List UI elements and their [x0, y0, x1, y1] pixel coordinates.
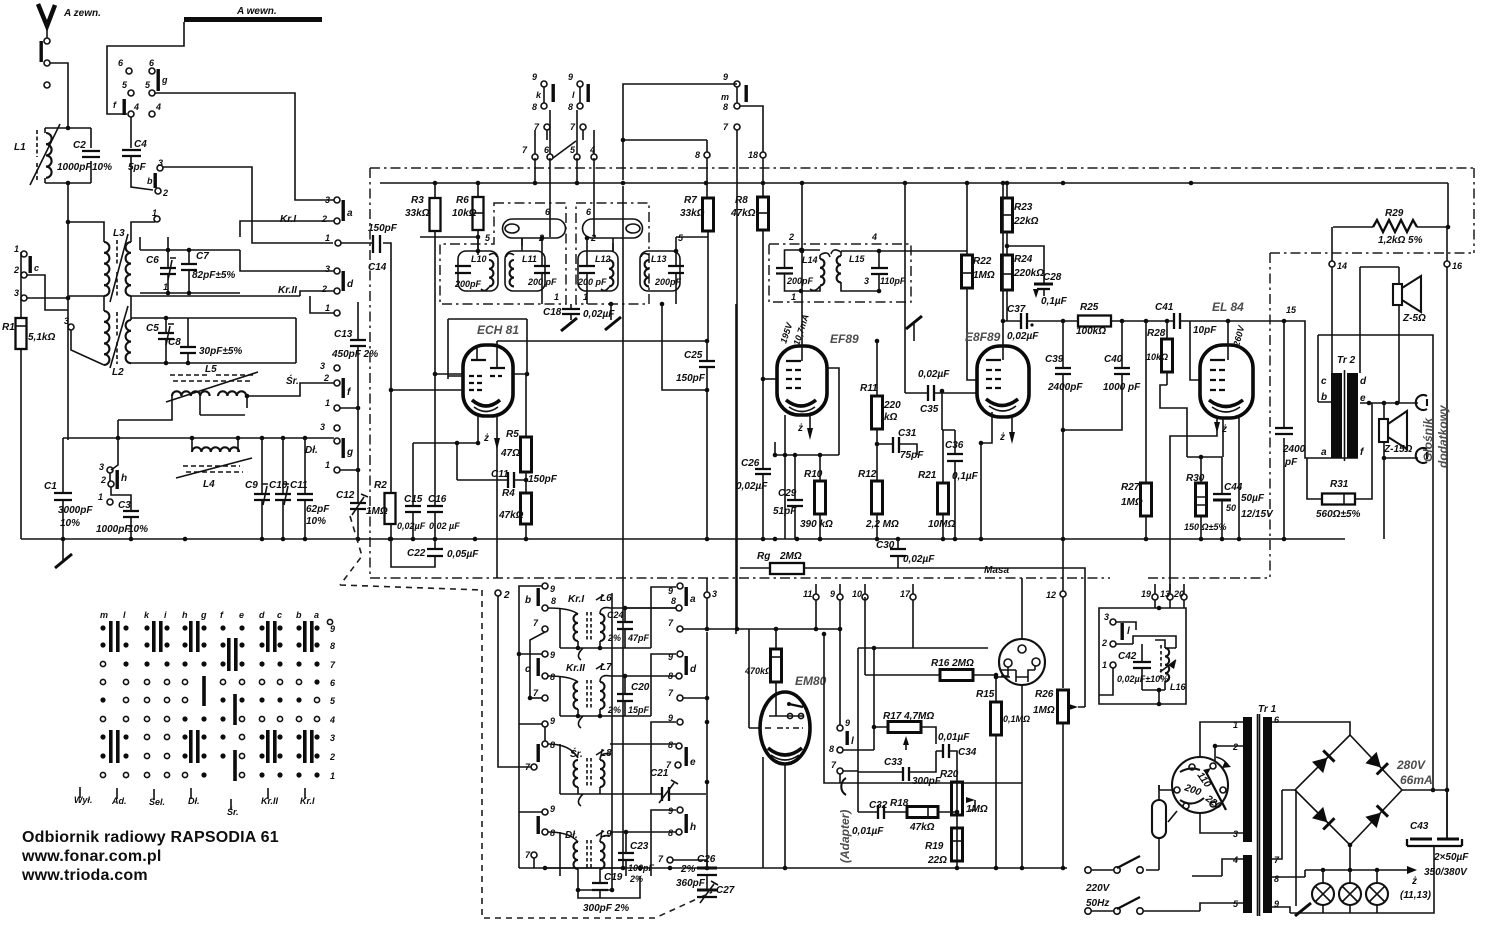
- wire: ECH81 cathode: [413, 416, 480, 480]
- node: pin row 7 6 5 4: [522, 110, 597, 160]
- svg-text:a: a: [347, 208, 353, 219]
- wire: EM80 top feed: [707, 130, 842, 728]
- svg-text:200 pF: 200 pF: [577, 277, 607, 287]
- svg-text:C2: C2: [73, 140, 86, 151]
- wire: selector to switch: [1146, 785, 1177, 870]
- svg-text:R4: R4: [502, 488, 515, 499]
- svg-text:kΩ: kΩ: [884, 412, 898, 423]
- capacitor C18 0.02uF: [543, 304, 615, 320]
- svg-text:200pF: 200pF: [654, 277, 682, 287]
- svg-text:C16: C16: [428, 494, 447, 505]
- svg-text:2%: 2%: [607, 633, 621, 643]
- svg-text:L13: L13: [651, 254, 667, 264]
- svg-text:150 Ω±5%: 150 Ω±5%: [1184, 522, 1227, 532]
- svg-text:g: g: [161, 75, 168, 85]
- capacitor C in can 200pF: [776, 250, 814, 291]
- svg-text:2: 2: [321, 214, 327, 224]
- svg-text:c: c: [1321, 376, 1327, 387]
- ground: C18 ground: [561, 318, 577, 331]
- svg-text:R28: R28: [1147, 328, 1166, 339]
- switch: contact group a2: [625, 583, 696, 611]
- node: A wewn. internal antenna: [184, 6, 322, 20]
- svg-text:(Adapter): (Adapter): [838, 810, 852, 863]
- node: junctions on B+ rail: [433, 181, 1194, 186]
- svg-text:d: d: [1360, 376, 1367, 387]
- wire: DIN socket drop: [994, 578, 1022, 868]
- node: www.fonar.com.pl: [21, 848, 162, 865]
- capacitor C30 0.02uF: [876, 539, 935, 568]
- svg-text:220: 220: [883, 400, 901, 411]
- resistor R18 47k: [890, 782, 959, 868]
- wire: audio section dash-dot left edge: [1269, 253, 1271, 578]
- svg-text:4: 4: [1232, 855, 1238, 865]
- wire: L5 connections: [118, 383, 334, 420]
- svg-text:Kr.II: Kr.II: [261, 796, 279, 806]
- svg-text:0,02µF: 0,02µF: [736, 481, 768, 492]
- svg-text:8: 8: [551, 596, 556, 606]
- svg-text:l: l: [1127, 626, 1130, 637]
- resistor R11 220k: [860, 339, 901, 481]
- svg-text:9: 9: [550, 804, 555, 814]
- svg-text:Masa: Masa: [984, 565, 1009, 576]
- svg-text:e: e: [239, 610, 244, 620]
- svg-text:1: 1: [791, 292, 796, 302]
- transformer Tr1: [1243, 704, 1277, 916]
- wire: heater lamp bus: [1272, 866, 1432, 901]
- svg-text:A wewn.: A wewn.: [236, 6, 277, 17]
- svg-text:12/15V: 12/15V: [1241, 509, 1274, 520]
- svg-text:C37: C37: [1007, 304, 1026, 315]
- switch: pin stack m above EF89: [721, 72, 748, 132]
- wire: L3 bottom to L2: [68, 296, 131, 320]
- svg-text:22kΩ: 22kΩ: [1013, 216, 1039, 227]
- svg-text:Śr.: Śr.: [570, 747, 583, 760]
- capacitor C44 50uF: [1213, 457, 1274, 541]
- transformer L2: [104, 306, 131, 378]
- node: matrix row numbers: [329, 624, 336, 781]
- svg-text:51pF: 51pF: [773, 506, 797, 517]
- svg-text:C20: C20: [631, 682, 650, 693]
- svg-text:9: 9: [830, 589, 835, 599]
- speaker Z-15ohm: [1379, 403, 1418, 460]
- svg-text:C9: C9: [245, 480, 258, 491]
- resistor R23 22k: [1002, 183, 1039, 255]
- svg-text:8: 8: [668, 671, 673, 681]
- node: L1 bottom junction: [66, 126, 71, 225]
- resistor R6 10k: [420, 183, 491, 255]
- svg-text:Rg: Rg: [757, 551, 770, 562]
- switch: contact group f (4,5,6): [113, 58, 139, 117]
- svg-text:16: 16: [1452, 261, 1463, 271]
- svg-text:0,02µF: 0,02µF: [918, 369, 950, 380]
- resistor R2 1M: [366, 388, 396, 542]
- svg-text:11: 11: [803, 589, 812, 599]
- capacitor C13 450pF: [331, 302, 378, 360]
- wire: tuning bus y438: [63, 420, 334, 452]
- svg-text:1: 1: [325, 398, 330, 408]
- capacitor C22 0.05uF: [391, 539, 479, 567]
- wire: chassis dash-dot left edge: [369, 168, 371, 578]
- switch: pin stack k above ECH81: [532, 72, 555, 140]
- wire: L1 down the left side: [67, 183, 69, 440]
- svg-text:L9: L9: [600, 829, 612, 840]
- wire: Kr.II wiring: [240, 250, 334, 313]
- svg-text:8: 8: [671, 596, 676, 606]
- diode D2: [1365, 752, 1388, 775]
- capacitor C10 trimmer: [269, 438, 291, 539]
- switch: mains switch lower: [1085, 897, 1200, 914]
- wire: ECH81 grid line left: [391, 389, 463, 391]
- svg-text:h: h: [182, 610, 188, 620]
- wire: antenna to L1: [50, 63, 68, 128]
- wire: L3 top frame: [68, 222, 155, 242]
- svg-text:C41: C41: [1155, 302, 1174, 313]
- node: terminal 8: [621, 138, 710, 198]
- wire: L9 top link to h2: [560, 810, 676, 876]
- svg-text:0,02µF: 0,02µF: [397, 521, 426, 531]
- wire: A wewn. to contact f4: [107, 22, 184, 114]
- svg-text:220V: 220V: [1085, 883, 1111, 894]
- switch: contact group c (1,2,3): [13, 244, 68, 301]
- node: terminal 18: [748, 150, 766, 197]
- tube EL84 internals: [1209, 360, 1243, 412]
- svg-text:2: 2: [1232, 742, 1238, 752]
- svg-text:1MΩ: 1MΩ: [966, 804, 988, 815]
- resistor R22 1M: [962, 183, 995, 380]
- svg-text:C31: C31: [898, 428, 917, 439]
- switch: contact group l3 adapter: [829, 718, 874, 783]
- svg-text:5,1kΩ: 5,1kΩ: [28, 332, 55, 343]
- svg-text:3: 3: [325, 264, 330, 274]
- svg-text:R22: R22: [973, 256, 992, 267]
- switch: contact group f2 Sr (1,2,3): [320, 361, 360, 411]
- svg-text:R5: R5: [506, 429, 519, 440]
- svg-text:8: 8: [668, 740, 673, 750]
- svg-text:R11: R11: [860, 383, 878, 394]
- resistor R1 5.1k: [2, 252, 55, 539]
- node: Adapter label: [838, 778, 852, 863]
- switch: contact group e2: [610, 713, 696, 794]
- svg-text:220kΩ: 220kΩ: [1013, 268, 1044, 279]
- resistor R28 10k: [1146, 319, 1173, 385]
- svg-text:200pF: 200pF: [454, 279, 482, 289]
- transformer L9 Dl: [548, 829, 612, 882]
- svg-text:L2: L2: [112, 367, 124, 378]
- svg-text:47kΩ: 47kΩ: [498, 510, 524, 521]
- wire: c2 wiper to L3: [27, 275, 68, 310]
- svg-text:33kΩ: 33kΩ: [680, 208, 705, 219]
- wire: adapter ground bus: [780, 866, 1067, 871]
- tube ECH81: [463, 323, 519, 416]
- svg-text:R29: R29: [1385, 208, 1404, 219]
- svg-text:47pF: 47pF: [627, 633, 650, 643]
- svg-text:L12: L12: [595, 254, 611, 264]
- svg-text:L4: L4: [203, 479, 215, 490]
- svg-text:19: 19: [1141, 589, 1151, 599]
- switch: contact group g2 Dl (1,2,3): [320, 422, 360, 473]
- capacitor C4 5pF: [122, 139, 147, 173]
- svg-text:1: 1: [554, 292, 559, 302]
- coil L4 with core: [176, 445, 318, 490]
- lamp 1: [1312, 870, 1334, 905]
- svg-text:C5: C5: [146, 323, 159, 334]
- svg-text:R3: R3: [411, 195, 424, 206]
- node: terminal 14: [1329, 227, 1347, 375]
- svg-text:10%: 10%: [306, 516, 326, 527]
- svg-text:R1: R1: [2, 322, 15, 333]
- capacitor C43 2x50uF: [1407, 790, 1469, 878]
- wire: L2 tank frame: [131, 316, 296, 366]
- svg-text:h: h: [690, 822, 696, 833]
- wire: can2 wiring: [583, 233, 708, 304]
- IF transformer L13: [640, 251, 684, 291]
- svg-text:2×50µF: 2×50µF: [1433, 852, 1469, 863]
- svg-text:47kΩ: 47kΩ: [909, 822, 935, 833]
- wire: dashed boundary to converter section: [340, 516, 482, 590]
- svg-text:Ad.: Ad.: [111, 796, 127, 806]
- svg-text:9: 9: [330, 624, 335, 634]
- svg-text:A zewn.: A zewn.: [63, 8, 101, 19]
- svg-text:1: 1: [98, 492, 103, 502]
- svg-text:d: d: [259, 610, 265, 620]
- capacitor C35 0.02uF: [905, 183, 977, 415]
- wire: L7 top link to d2: [560, 654, 676, 716]
- wire: main vertical detector line: [705, 632, 710, 870]
- switch: contact group l2: [519, 716, 555, 772]
- socket: DIN adapter socket: [999, 639, 1045, 685]
- svg-text:C4: C4: [134, 139, 147, 150]
- resistor R17 4.7M: [872, 711, 936, 750]
- svg-text:1: 1: [325, 303, 330, 313]
- svg-text:2%: 2%: [680, 864, 696, 875]
- svg-text:0,02µF: 0,02µF: [1007, 331, 1039, 342]
- wire: Kr.I 2 to selectivity: [240, 221, 334, 237]
- svg-text:ż: ż: [1221, 424, 1227, 435]
- svg-text:(11,13): (11,13): [1400, 890, 1432, 901]
- IF transformer L12: [577, 251, 618, 291]
- svg-text:3: 3: [864, 276, 869, 286]
- wire: unit 1 terminal drop: [1099, 668, 1113, 695]
- svg-text:R25: R25: [1080, 302, 1099, 313]
- svg-text:EM80: EM80: [795, 674, 827, 688]
- svg-text:pF: pF: [1284, 457, 1298, 468]
- svg-text:Głośnik: Głośnik: [1421, 417, 1435, 462]
- svg-text:3: 3: [99, 462, 104, 472]
- wire: Tr2 winding connections: [1318, 267, 1418, 405]
- svg-text:0,1MΩ: 0,1MΩ: [1003, 714, 1030, 724]
- transformer Tr1 pin labels: [1232, 715, 1280, 909]
- svg-text:L10: L10: [471, 254, 487, 264]
- wire: bridge output: [1296, 788, 1449, 906]
- svg-text:30pF±5%: 30pF±5%: [199, 346, 242, 357]
- svg-text:C14: C14: [368, 262, 387, 273]
- svg-text:8: 8: [829, 744, 834, 754]
- transformer L7 Kr.II: [548, 662, 651, 728]
- svg-text:8: 8: [550, 672, 555, 682]
- svg-text:L7: L7: [600, 662, 612, 673]
- svg-text:10MΩ: 10MΩ: [928, 519, 955, 530]
- resistor R16b 470k: [744, 629, 782, 716]
- svg-text:b: b: [296, 610, 302, 620]
- svg-text:R12: R12: [858, 469, 877, 480]
- svg-text:15: 15: [1286, 305, 1297, 315]
- node: terminal 12: [1046, 539, 1066, 688]
- svg-text:2: 2: [329, 752, 335, 762]
- svg-text:390 kΩ: 390 kΩ: [800, 519, 833, 530]
- svg-text:50Hz: 50Hz: [1086, 898, 1109, 909]
- node: title Odbiornik radiowy RAPSODIA 61: [22, 829, 279, 846]
- svg-text:1: 1: [583, 292, 588, 302]
- svg-text:C11: C11: [491, 469, 509, 480]
- svg-text:10%: 10%: [128, 524, 148, 535]
- node: Masa label: [984, 565, 1009, 576]
- svg-text:R31: R31: [1330, 479, 1349, 490]
- svg-text:4: 4: [133, 102, 139, 112]
- svg-text:1: 1: [1102, 660, 1107, 670]
- wire: b3 to terminal 1 and C14: [163, 167, 333, 243]
- svg-text:9: 9: [668, 586, 673, 596]
- IF transformer L10: [454, 251, 498, 291]
- coil L15: [831, 249, 967, 291]
- svg-text:9: 9: [668, 806, 673, 816]
- svg-text:1: 1: [163, 282, 168, 292]
- svg-text:L14: L14: [802, 255, 818, 265]
- tube EBF89 internals: [986, 346, 1018, 411]
- ground: IF shield ground: [605, 302, 621, 330]
- svg-text:C44: C44: [1224, 482, 1243, 493]
- svg-text:R26: R26: [1035, 689, 1054, 700]
- svg-text:8: 8: [723, 102, 728, 112]
- svg-text:C26: C26: [741, 458, 760, 469]
- IF transformer L11: [505, 251, 557, 291]
- svg-text:C25: C25: [684, 350, 703, 361]
- svg-text:E8F89: E8F89: [965, 330, 1001, 344]
- capacitor C31 75pF: [877, 428, 924, 461]
- resistor R20 1M: [940, 769, 988, 815]
- svg-text:b: b: [525, 595, 531, 606]
- capacitor C23 100pF: [618, 830, 655, 884]
- svg-text:C28: C28: [1043, 272, 1062, 283]
- wire: audio section dash-dot top edge: [1270, 252, 1474, 254]
- wire: C42 L16 inner frame: [1116, 622, 1176, 706]
- switch: contact group h2: [658, 806, 696, 864]
- capacitor C1 3000pF: [44, 438, 93, 539]
- lamp 2: [1339, 870, 1361, 905]
- capacitor C25 150pF: [660, 302, 715, 539]
- capacitor C5 trimmer: [146, 318, 174, 363]
- coil L5 with core: [166, 364, 299, 402]
- svg-text:3: 3: [320, 422, 325, 432]
- svg-text:2: 2: [13, 265, 19, 275]
- svg-text:8: 8: [1274, 874, 1279, 884]
- svg-text:R6: R6: [456, 195, 469, 206]
- switch: contact group a Kr.I: [280, 195, 353, 246]
- IF can box 1 dash-dot: [440, 203, 566, 304]
- wire: f4 down to C4: [130, 117, 132, 148]
- wire: dashed box around band coil unit: [482, 590, 712, 918]
- svg-text:3: 3: [14, 288, 19, 298]
- capacitor C12 trimmer: [336, 360, 368, 539]
- svg-text:75pF: 75pF: [900, 450, 924, 461]
- wire: EM80 right side drop: [822, 632, 1022, 783]
- svg-text:1000pF: 1000pF: [96, 524, 131, 535]
- svg-text:9: 9: [845, 718, 850, 728]
- heater z EL84: [1170, 418, 1227, 591]
- svg-text:h: h: [121, 473, 127, 484]
- transformer L8 Sr: [548, 744, 706, 806]
- svg-text:200pF: 200pF: [786, 276, 814, 286]
- svg-text:2: 2: [503, 590, 510, 601]
- node: osc grid node: [433, 372, 463, 377]
- resistor R16 2M: [865, 597, 998, 681]
- svg-text:1: 1: [325, 233, 330, 243]
- capacitor C32 0.01uF: [852, 772, 907, 837]
- svg-text:c: c: [277, 610, 282, 620]
- svg-text:47Ω: 47Ω: [500, 448, 520, 459]
- svg-text:1: 1: [14, 244, 19, 254]
- svg-text:2MΩ: 2MΩ: [779, 551, 802, 562]
- svg-text:3: 3: [325, 195, 330, 205]
- svg-text:50: 50: [1226, 503, 1236, 513]
- svg-text:C24: C24: [607, 610, 624, 620]
- svg-text:Sel.: Sel.: [149, 797, 165, 807]
- svg-text:2%: 2%: [629, 874, 643, 884]
- switch: contact group d Kr.II: [278, 264, 354, 316]
- svg-text:www.trioda.com: www.trioda.com: [21, 867, 148, 884]
- ground: main chassis ground: [55, 539, 72, 568]
- node: 280V 66mA label: [1396, 758, 1433, 787]
- heater z EF89: [797, 415, 813, 440]
- capacitor C7 82pF: [181, 250, 235, 293]
- svg-text:Odbiornik radiowy RAPSODIA 61: Odbiornik radiowy RAPSODIA 61: [22, 829, 279, 846]
- capacitor C33 300pF: [858, 751, 942, 787]
- capacitor C24 47pF: [607, 606, 650, 648]
- tube EM80 internals: [765, 702, 804, 760]
- wire: Tr1 primary feeds: [1192, 722, 1243, 911]
- resistor R10 390k: [800, 453, 833, 542]
- resistor R4 47k: [498, 488, 532, 539]
- node: matrix function labels: [74, 787, 315, 817]
- svg-text:62pF: 62pF: [306, 504, 330, 515]
- svg-text:3: 3: [1233, 829, 1238, 839]
- rectifier bridge: [1295, 735, 1402, 845]
- svg-text:EF89: EF89: [830, 332, 859, 346]
- selector: voltage selector dial: [1172, 757, 1231, 813]
- svg-text:9: 9: [668, 652, 673, 662]
- svg-text:1: 1: [325, 460, 330, 470]
- wire: bottom bus of band unit: [519, 866, 780, 871]
- resistor Rg 2M: [740, 551, 1085, 707]
- capacitor C9 trimmer: [245, 438, 270, 539]
- svg-text:450pF 2%: 450pF 2%: [331, 349, 378, 360]
- resistor R19 22ohm: [925, 828, 963, 866]
- svg-text:ż: ż: [483, 433, 489, 444]
- capacitor C3 1000pF: [96, 487, 148, 539]
- svg-text:3: 3: [320, 361, 325, 371]
- svg-text:1000 pF: 1000 pF: [1103, 382, 1141, 393]
- node: c3 junction: [66, 296, 71, 301]
- svg-text:1: 1: [330, 771, 335, 781]
- svg-text:0,02µF: 0,02µF: [903, 554, 935, 565]
- switch: contact group l4: [1101, 612, 1130, 670]
- svg-text:Kr.II: Kr.II: [278, 285, 297, 296]
- resistor R5 47: [500, 374, 532, 493]
- svg-text:C18: C18: [543, 307, 562, 318]
- svg-text:9: 9: [550, 716, 555, 726]
- svg-text:1,2kΩ 5%: 1,2kΩ 5%: [1378, 235, 1423, 246]
- node: contact 7 row1: [530, 618, 709, 698]
- svg-text:0,1µF: 0,1µF: [1041, 296, 1068, 307]
